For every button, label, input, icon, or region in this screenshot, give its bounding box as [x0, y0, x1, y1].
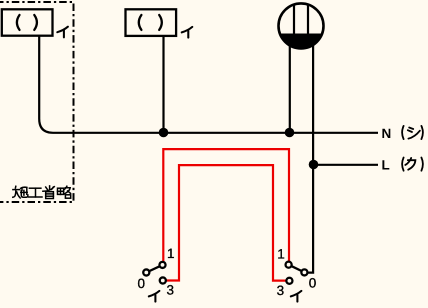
svg-text:N: N [382, 126, 392, 141]
svg-text:3: 3 [277, 283, 285, 298]
svg-text:0: 0 [309, 276, 317, 291]
svg-text:3: 3 [167, 283, 175, 298]
svg-text:1: 1 [277, 246, 285, 261]
svg-text:1: 1 [167, 246, 175, 261]
svg-text:L: L [382, 157, 390, 172]
svg-text:0: 0 [138, 276, 146, 291]
